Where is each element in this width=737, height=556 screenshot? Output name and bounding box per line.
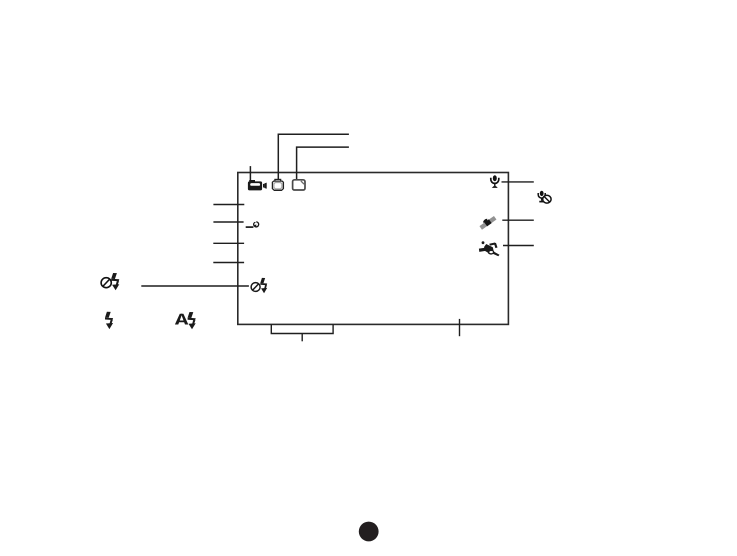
callout line to camcorder icon [249,166,251,180]
runner icon [479,241,500,256]
callout line from left no-flash icon into screen [141,285,249,287]
no-audio icon: circle slash [543,195,551,203]
microphone icon [491,175,499,188]
auto flash icon: letter A [175,314,188,325]
left tick 3 [213,242,244,244]
left no-flash icon: bolt [111,273,119,290]
auto flash icon: bolt [188,312,196,329]
left tick 2 [213,221,243,223]
page number dot [359,522,379,542]
screen outline [238,173,509,325]
self timer curl icon [246,222,259,227]
callout line to card icon [297,147,349,179]
no-audio icon: small microphone [538,191,545,202]
left no-flash icon: circle slash [101,278,111,288]
right callout line from mic icon [502,181,534,183]
callout line to battery icon [278,134,349,179]
bottom bracket stub [301,334,303,342]
in-screen no-flash icon: circle slash [251,283,260,292]
in-screen no-flash icon: bolt [260,278,267,293]
left tick 4 [213,262,244,264]
battery icon [272,179,283,190]
camcorder icon [248,180,267,190]
bottom tick [459,319,461,336]
memory card icon [293,180,305,190]
right callout line from satellite icon [502,219,534,221]
left tick 1 [213,204,244,206]
right callout line from runner icon [503,245,534,247]
bottom bracket [271,324,333,333]
satellite icon [479,216,496,230]
flash bolt icon [105,312,113,329]
